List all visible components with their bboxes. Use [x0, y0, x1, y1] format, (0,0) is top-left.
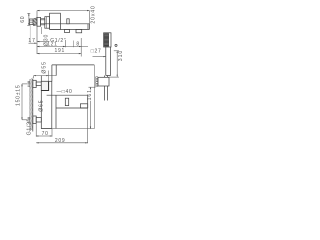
escutcheon top view	[37, 17, 41, 26]
arrows O55	[34, 75, 36, 76]
ext line for dim 8	[80, 38, 82, 57]
svg-text:G1/2”: G1/2”	[27, 119, 33, 135]
hose spring coil	[95, 77, 98, 87]
body column front	[41, 81, 52, 128]
projection line from stem to base	[93, 65, 95, 129]
wall line	[36, 11, 38, 54]
cone connector	[104, 76, 107, 78]
body square top view	[50, 13, 61, 29]
ext lines for dim 121	[64, 40, 66, 47]
svg-text:310: 310	[118, 50, 124, 61]
arrows 121	[37, 46, 39, 47]
svg-text:17: 17	[28, 38, 36, 44]
spray face grid	[104, 34, 108, 47]
lower pipe front	[36, 118, 41, 122]
dim 121 line	[37, 46, 88, 48]
arrows 70	[36, 135, 38, 136]
column left edge upper	[40, 76, 42, 82]
leader G1/2 top	[37, 41, 49, 43]
arrows 191	[37, 53, 39, 54]
ext line escutcheon edge	[40, 27, 42, 34]
arrows 310	[117, 51, 118, 53]
wall hatching	[30, 78, 33, 131]
dim 27 leader	[93, 56, 106, 58]
upper pipe front	[36, 82, 41, 86]
svg-text:121: 121	[47, 41, 57, 47]
arrow 8	[79, 46, 81, 47]
holder button	[115, 44, 117, 46]
dim 17 line	[29, 42, 37, 44]
spout front	[47, 95, 88, 108]
ext line right for O55 dim	[48, 71, 50, 82]
holder elbow rect	[98, 77, 109, 86]
wire top dim line	[37, 10, 90, 12]
spout top view	[45, 24, 90, 30]
leader square40	[57, 90, 62, 92]
arrows 209	[36, 142, 38, 143]
svg-text:Ø65: Ø65	[38, 100, 44, 112]
cap line with tick	[34, 76, 57, 79]
svg-text:161: 161	[87, 89, 93, 100]
arrow leader G12	[37, 41, 39, 42]
upper escutcheon front	[33, 80, 36, 87]
svg-text:□40: □40	[62, 89, 73, 95]
nut behind wall	[30, 19, 34, 25]
aerator front	[80, 104, 87, 108]
column side line	[55, 95, 57, 128]
arrow 17	[34, 43, 36, 44]
svg-text:70: 70	[42, 131, 49, 137]
arrows 60	[28, 13, 29, 15]
arrows 150	[21, 84, 22, 86]
dim 209	[36, 95, 87, 143]
svg-text:209: 209	[55, 138, 65, 144]
arrow 27	[103, 56, 105, 57]
svg-text:20x40: 20x40	[90, 5, 96, 23]
diverter knob top view	[67, 19, 69, 24]
dim 310 line	[114, 51, 119, 77]
svg-text:191: 191	[55, 48, 65, 54]
arrows top dim	[37, 10, 39, 11]
column bottom ext	[41, 128, 94, 130]
arrowheads	[21, 10, 118, 144]
dim 70	[36, 124, 52, 137]
union top view	[45, 17, 50, 29]
arrows 161	[90, 87, 91, 89]
svg-text:8: 8	[76, 41, 79, 47]
svg-text:60: 60	[20, 16, 26, 23]
upper pipe stub coil	[28, 81, 30, 86]
handshower head	[104, 33, 111, 47]
svg-text:□27: □27	[91, 48, 102, 54]
handle sides	[106, 47, 111, 76]
wall hatched strip edge	[32, 79, 34, 132]
handle front	[41, 81, 48, 90]
lower pipe stub coil	[28, 117, 30, 122]
spray face plate	[104, 34, 108, 47]
spout end extension	[89, 11, 91, 24]
dim 60 line	[27, 13, 30, 25]
aerator top view	[76, 29, 82, 32]
dim 191 line	[37, 53, 81, 55]
hose lines	[104, 86, 107, 101]
threaded pipe coil	[33, 18, 37, 26]
riser stem on column top	[52, 65, 94, 81]
dim 150 line	[22, 84, 27, 120]
spout base nut below	[65, 29, 70, 32]
pipe top view	[41, 19, 45, 25]
lower escutcheon front	[33, 116, 36, 124]
svg-text:150±15: 150±15	[16, 85, 22, 106]
diverter knob front	[65, 98, 68, 105]
holder top line to dim	[109, 76, 119, 78]
svg-text:Ø55: Ø55	[41, 61, 47, 74]
dim 161 line	[89, 87, 96, 129]
